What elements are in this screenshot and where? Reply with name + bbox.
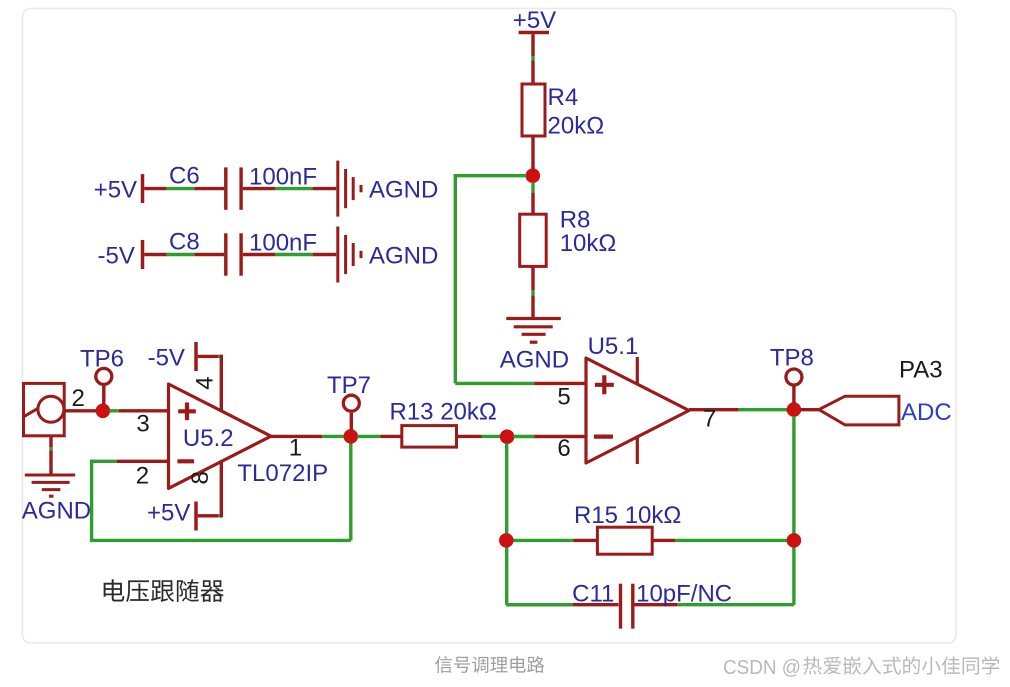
svg-text:2: 2 [136, 463, 149, 490]
svg-text:AGND: AGND [369, 176, 438, 203]
svg-text:R15 10kΩ: R15 10kΩ [574, 502, 681, 529]
svg-text:+5V: +5V [513, 7, 556, 34]
svg-text:TP8: TP8 [770, 344, 814, 371]
svg-text:AGND: AGND [22, 498, 91, 525]
svg-text:AGND: AGND [369, 242, 438, 269]
svg-text:C8: C8 [169, 228, 200, 255]
svg-text:10kΩ: 10kΩ [560, 230, 617, 257]
svg-text:PA3: PA3 [899, 356, 943, 383]
svg-text:10pF/NC: 10pF/NC [636, 581, 732, 608]
svg-text:8: 8 [187, 471, 214, 484]
svg-text:7: 7 [703, 405, 716, 432]
svg-text:U5.1: U5.1 [588, 333, 639, 360]
svg-text:CSDN @: CSDN @ [723, 657, 801, 679]
svg-text:100nF: 100nF [249, 164, 317, 191]
svg-text:100nF: 100nF [249, 230, 317, 257]
svg-text:TL072IP: TL072IP [237, 460, 328, 487]
svg-text:2: 2 [72, 385, 85, 412]
svg-text:AGND: AGND [500, 346, 569, 373]
svg-text:20kΩ: 20kΩ [548, 113, 605, 140]
svg-text:C6: C6 [169, 162, 200, 189]
svg-text:-5V: -5V [98, 242, 135, 269]
svg-text:3: 3 [136, 410, 149, 437]
svg-text:5: 5 [557, 384, 570, 411]
svg-text:ADC: ADC [901, 399, 952, 426]
svg-text:4: 4 [192, 376, 219, 389]
svg-text:+5V: +5V [147, 500, 190, 527]
svg-text:U5.2: U5.2 [183, 425, 234, 452]
svg-text:TP6: TP6 [80, 346, 124, 373]
svg-text:R4: R4 [548, 84, 579, 111]
svg-text:-5V: -5V [148, 345, 185, 372]
svg-text:C11: C11 [572, 581, 614, 608]
svg-text:R13 20kΩ: R13 20kΩ [390, 399, 497, 426]
svg-text:TP7: TP7 [327, 372, 371, 399]
svg-text:1: 1 [289, 434, 302, 461]
svg-text:6: 6 [557, 435, 570, 462]
svg-text:+5V: +5V [94, 176, 137, 203]
